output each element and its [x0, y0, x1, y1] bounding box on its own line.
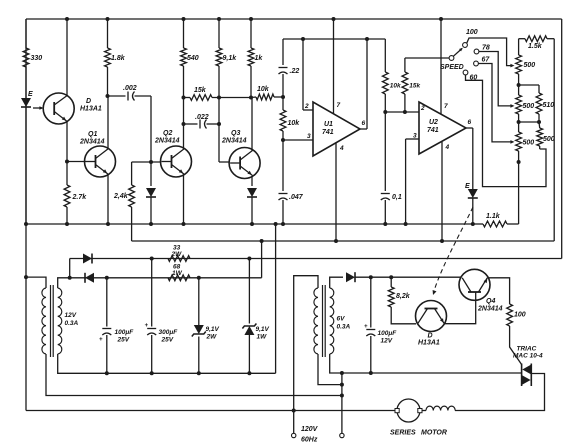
- resistor 10k vertical U1 input: [280, 97, 286, 140]
- svg-text:D: D: [86, 98, 91, 105]
- wire T2 secondary bottom common: [330, 354, 520, 373]
- label .047: [289, 194, 304, 201]
- wire Q2 emitter down: [183, 174, 185, 224]
- resistor 2.4k: [129, 162, 135, 241]
- svg-text:2N3414: 2N3414: [79, 139, 105, 146]
- junction 100uF2 bottom: [369, 371, 373, 375]
- U2 pin3 wire: [406, 139, 419, 224]
- svg-text:E: E: [465, 183, 470, 190]
- junction rail x219: [217, 17, 221, 21]
- svg-text:E: E: [28, 91, 33, 98]
- capacitor .22: [279, 39, 288, 97]
- svg-text:540: 540: [187, 55, 199, 62]
- svg-text:.22: .22: [290, 68, 300, 75]
- junction rail x107.5: [106, 17, 110, 21]
- label 9.1V 2W: [206, 326, 220, 341]
- capacitor 300uF 25V: [145, 259, 157, 374]
- label Q2: [154, 130, 180, 145]
- label 1.5k: [528, 43, 543, 50]
- wire triac MT2 to motor line: [455, 374, 545, 411]
- svg-text:2: 2: [420, 105, 425, 112]
- wire H13A1 lower emitter to Q4 base: [444, 300, 475, 323]
- diode T2 rectifier: [346, 272, 461, 282]
- junction rail x67: [65, 17, 69, 21]
- label 8.2k: [396, 293, 411, 300]
- svg-text:2.7k: 2.7k: [72, 194, 88, 201]
- svg-text:D: D: [428, 333, 433, 340]
- junction chain bottom: [517, 160, 521, 164]
- label 100: [466, 29, 478, 36]
- wire rail-to-supply common x275.6: [275, 224, 277, 373]
- resistor 540: [181, 19, 187, 98]
- U1 pin3 wire: [283, 139, 313, 141]
- svg-text:2N3414: 2N3414: [154, 138, 180, 145]
- junction -V x336 U1 pin4: [334, 239, 338, 243]
- label U2 pin6: [468, 119, 472, 126]
- label 100 ohm: [514, 312, 526, 319]
- wire top +V rail: [26, 18, 562, 20]
- svg-text:H13A1: H13A1: [80, 106, 102, 113]
- junction zener1 top: [197, 276, 201, 280]
- resistor 1.5k: [519, 36, 555, 42]
- motor circle: [395, 399, 422, 422]
- wire chain bottom down to 1.1k: [518, 151, 520, 224]
- label T2 6V 0.3A: [337, 316, 351, 331]
- junction 510/500 y122: [537, 120, 541, 124]
- svg-text:67: 67: [482, 57, 491, 64]
- svg-text:12V: 12V: [65, 312, 77, 319]
- junction supply common dots: [105, 371, 252, 375]
- label 15k U2: [409, 83, 420, 90]
- svg-text:+: +: [145, 323, 149, 329]
- label 540: [187, 55, 199, 62]
- wire Q2 base: [132, 161, 161, 163]
- svg-text:15k: 15k: [409, 83, 420, 90]
- resistor 510: [519, 85, 542, 122]
- node .022 right: [217, 122, 221, 126]
- label T1 12V 0.3A: [65, 312, 79, 327]
- svg-text:500: 500: [523, 140, 535, 147]
- label U1 pin2: [304, 103, 309, 110]
- resistor 1k: [248, 19, 254, 98]
- U2 pin4 wire down: [441, 142, 443, 241]
- junction rail224 x283: [281, 222, 285, 226]
- svg-text:2: 2: [304, 103, 309, 110]
- svg-text:1.8k: 1.8k: [111, 55, 126, 62]
- wire Q3 collector up: [251, 98, 253, 151]
- wire pot chain 2: [518, 114, 520, 132]
- U2 output pin6 wire: [466, 128, 473, 189]
- junction rail224 x405.6: [404, 222, 408, 226]
- svg-text:10k: 10k: [390, 83, 401, 90]
- svg-text:2W: 2W: [206, 334, 218, 341]
- capacitor 100uF 12V: [364, 277, 375, 373]
- junction zener2 top: [247, 257, 251, 261]
- label U2 741: [427, 119, 439, 134]
- label 510: [543, 102, 555, 109]
- junction x341.9 y384.6: [340, 383, 344, 387]
- svg-text:0.3A: 0.3A: [65, 320, 79, 327]
- junction 100uF top: [105, 276, 109, 280]
- svg-text:500: 500: [523, 103, 535, 110]
- wire Q4 emitter to 100ohm: [487, 278, 509, 304]
- resistor 330: [23, 19, 29, 97]
- label 500 bottom: [523, 140, 535, 147]
- svg-text:4: 4: [445, 144, 450, 151]
- label .022: [195, 114, 209, 121]
- svg-text:2N3414: 2N3414: [221, 138, 247, 145]
- svg-text:1.1k: 1.1k: [486, 213, 501, 220]
- label 9.1k: [223, 55, 238, 62]
- resistor 2.7k: [64, 162, 70, 225]
- node 1.8k bottom: [106, 94, 110, 98]
- U1 output wire pin6: [360, 39, 367, 129]
- junction 15k line x219: [217, 96, 221, 100]
- svg-text:U2: U2: [429, 119, 438, 126]
- capacitor 0.1: [381, 112, 390, 224]
- node U2 pin2 10k: [383, 110, 387, 114]
- junction rail x251: [249, 17, 253, 21]
- contact 100: [463, 43, 468, 48]
- U1 pin7 supply wire: [333, 19, 335, 114]
- svg-text:4: 4: [339, 145, 344, 152]
- label 500 top: [524, 62, 536, 69]
- wire H13A1 emitter to base node: [66, 121, 68, 161]
- svg-text:0,1: 0,1: [392, 194, 402, 201]
- label 330: [31, 55, 43, 62]
- label TRIAC MAC 10-4: [513, 346, 543, 360]
- transistor Q3 2N3414: [229, 148, 260, 179]
- svg-text:SPEED: SPEED: [440, 64, 464, 71]
- diode D2 rectifier: [85, 273, 94, 283]
- label 67: [482, 57, 491, 64]
- dashed light arrow E2 to lower detector: [433, 207, 473, 295]
- svg-text:Q4: Q4: [486, 298, 495, 305]
- junction rail224 x385: [383, 222, 387, 226]
- svg-text:510: 510: [543, 102, 555, 109]
- label U1 pin4: [339, 145, 344, 152]
- wire T2 primary top to AC1: [294, 276, 318, 434]
- op-amp U1 741: [313, 102, 360, 156]
- junction feedback x367: [365, 37, 369, 41]
- junction rail x183: [182, 17, 186, 21]
- wire pot chain: [518, 74, 520, 95]
- wire -V line y241: [132, 240, 555, 242]
- transistor Q1 2N3414: [85, 146, 116, 177]
- junction rail x333.5: [332, 17, 336, 21]
- svg-text:60Hz: 60Hz: [301, 437, 318, 444]
- LED E2 (optocoupler emitter to triac driver): [468, 189, 478, 224]
- wire left border vertical (top-left corner down): [25, 19, 27, 224]
- wire raw line y277.8: [70, 277, 262, 279]
- label SPEED: [440, 64, 464, 71]
- junction -V x261.6: [260, 239, 264, 243]
- junction rail224 x183: [182, 222, 186, 226]
- wire contact 100 to pot1 wiper: [467, 38, 515, 67]
- wire Q1 emitter down: [107, 174, 109, 224]
- contact 60: [463, 70, 468, 75]
- resistor 100: [507, 304, 522, 365]
- phototransistor D H13A1 (lower): [416, 301, 447, 332]
- diode below Q2: [146, 162, 156, 224]
- label 2.7k: [72, 194, 88, 201]
- switch arm: [453, 48, 463, 57]
- resistor 8.2k: [388, 277, 416, 324]
- terminal AC2: [340, 433, 344, 437]
- svg-text:.047: .047: [289, 194, 304, 201]
- wire +V line y258.5 to top rail right border: [70, 19, 562, 259]
- diode below Q3: [247, 176, 257, 224]
- resistor 500 parallel: [537, 122, 543, 149]
- label 100uF 25V: [115, 329, 135, 344]
- resistor 1.1k: [473, 221, 519, 227]
- svg-text:330: 330: [31, 55, 43, 62]
- label 15k: [194, 87, 207, 94]
- wire common rail y224: [26, 223, 473, 225]
- capacitor .022: [184, 120, 220, 129]
- svg-text:100: 100: [514, 312, 526, 319]
- svg-text:+: +: [364, 324, 368, 330]
- label 2.4k: [113, 193, 129, 200]
- svg-text:Q2: Q2: [163, 130, 172, 137]
- label U1 pin7: [337, 102, 341, 109]
- label .002: [123, 85, 137, 92]
- label U2 pin3: [413, 133, 417, 140]
- svg-text:25V: 25V: [117, 337, 130, 344]
- label 0.1: [392, 194, 402, 201]
- junction rail224 x67: [65, 222, 69, 226]
- svg-text:1W: 1W: [257, 334, 268, 341]
- label Q3: [221, 130, 247, 145]
- junction 300uF top: [150, 257, 154, 261]
- wire triac MT1 to common line: [520, 372, 522, 374]
- contact 78: [474, 49, 479, 54]
- label .22: [290, 68, 300, 75]
- svg-text:10k: 10k: [257, 86, 270, 93]
- label 10k vertical: [288, 120, 301, 127]
- inductor series field coil: [423, 406, 456, 410]
- svg-text:9,1k: 9,1k: [223, 55, 238, 62]
- wire switch common to 15k: [405, 57, 449, 60]
- wire contact 67 to pot3 wiper: [478, 64, 514, 144]
- svg-text:1.5k: 1.5k: [528, 43, 543, 50]
- wire Q2 collector up: [183, 98, 185, 150]
- svg-text:MAC 10-4: MAC 10-4: [513, 353, 543, 360]
- transistor Q4 2N3414: [459, 269, 490, 300]
- junction rail224 x252: [250, 222, 254, 226]
- label 10k U2: [390, 83, 401, 90]
- label U2 pin2: [420, 105, 425, 112]
- svg-text:120V: 120V: [301, 426, 319, 433]
- svg-text:300μF: 300μF: [159, 329, 179, 336]
- svg-text:0.3A: 0.3A: [337, 324, 351, 331]
- potentiometer 500 mid: [516, 95, 522, 114]
- U1 pin4 wire down: [335, 143, 337, 241]
- svg-text:100μF: 100μF: [115, 329, 135, 336]
- label 500 mid: [523, 103, 535, 110]
- triac MAC 10-4: [522, 364, 532, 387]
- resistor 10k horizontal: [251, 94, 283, 100]
- wire Q1 collector up: [107, 96, 110, 149]
- junction rail224 x275.6: [274, 222, 278, 226]
- label 100uF 12V: [378, 330, 398, 345]
- label 78: [482, 45, 490, 52]
- node Q2 collector / 15k left: [182, 96, 186, 100]
- svg-text:U1: U1: [324, 121, 333, 128]
- resistor 9.1k: [216, 19, 222, 162]
- label Q1: [79, 131, 105, 146]
- label U1 pin3: [307, 133, 311, 140]
- label SERIES MOTOR: [390, 430, 447, 437]
- label 10k horizontal: [257, 86, 270, 93]
- junction chain y122: [517, 120, 521, 124]
- wire T1 primary bottom to AC: [46, 354, 342, 396]
- wire T2 secondary top +6V line: [330, 277, 343, 288]
- wire U1 pin2 vertical: [302, 39, 304, 110]
- node 1k bottom: [249, 96, 253, 100]
- terminal AC1: [292, 433, 296, 437]
- svg-text:1W: 1W: [172, 270, 183, 277]
- svg-text:.002: .002: [123, 85, 137, 92]
- wire U1 feedback top line: [283, 38, 385, 40]
- wire Q3 base: [219, 161, 229, 163]
- svg-text:SERIES: SERIES: [390, 430, 416, 437]
- op-amp U2 741: [419, 102, 466, 154]
- transistor Q2 2N3414: [161, 146, 192, 177]
- junction rail224 x26: [24, 222, 28, 226]
- wire left border lower: [25, 224, 27, 411]
- zener 9.1V 2W: [192, 278, 206, 374]
- svg-text:1k: 1k: [255, 55, 264, 62]
- U2 pin7 supply wire: [440, 19, 442, 114]
- wire AC2 vertical: [341, 373, 343, 433]
- svg-text:25V: 25V: [161, 337, 174, 344]
- label D H13A1 lower: [418, 333, 440, 347]
- svg-text:7: 7: [337, 102, 341, 109]
- capacitor .047: [279, 140, 288, 224]
- svg-text:6: 6: [362, 120, 366, 127]
- label 68 1W: [172, 264, 183, 278]
- junction feedback x303: [301, 37, 305, 41]
- label 500 parallel: [543, 136, 555, 143]
- wire 1.5k left down to pot chain: [518, 39, 520, 55]
- label U2 pin4: [445, 144, 450, 151]
- junction chain x518.6 y85: [517, 83, 521, 87]
- LED E1 (optocoupler emitter): [21, 97, 31, 224]
- label E1: [28, 91, 33, 98]
- svg-text:H13A1: H13A1: [418, 340, 440, 347]
- node U2 pin2 15k: [403, 110, 407, 114]
- junction supply line x69.7: [68, 276, 72, 280]
- transformer T1 12V 0.3A: [42, 285, 62, 357]
- svg-text:15k: 15k: [194, 87, 207, 94]
- svg-text:Q3: Q3: [231, 130, 240, 137]
- capacitor .002: [108, 92, 152, 101]
- junction rail224 x151: [149, 222, 153, 226]
- svg-text:2N3414: 2N3414: [477, 306, 503, 313]
- wire rectifier link: [69, 259, 71, 278]
- label 60: [470, 75, 478, 82]
- potentiometer 500 top: [516, 55, 522, 74]
- wire T1 secondary top: [58, 278, 70, 288]
- resistor 15k U2 feedback: [402, 59, 408, 113]
- transformer T2 6V 0.3A: [314, 285, 334, 357]
- wire interconnect 241-278: [261, 241, 263, 278]
- label U1 741: [322, 121, 334, 136]
- contact 67: [474, 61, 479, 66]
- node U1 pin3 wire: [281, 138, 285, 142]
- svg-text:2W: 2W: [171, 251, 183, 258]
- label 9.1V 1W: [256, 326, 270, 341]
- node Q1 base: [65, 160, 69, 164]
- label D H13A1 upper: [80, 98, 102, 113]
- svg-text:7: 7: [444, 103, 448, 110]
- svg-text:3: 3: [413, 133, 417, 140]
- label 1k: [255, 55, 264, 62]
- svg-text:78: 78: [482, 45, 490, 52]
- junction 100uF2 top: [369, 275, 373, 279]
- diode D1 rectifier: [83, 254, 92, 264]
- junction x341.9 y373: [340, 371, 344, 375]
- svg-text:10k: 10k: [288, 120, 301, 127]
- junction rail224 x472.8: [471, 222, 475, 226]
- wire motor line y410.5: [26, 410, 397, 412]
- svg-text:9,1V: 9,1V: [256, 326, 270, 333]
- resistor 10k U2 input: [382, 39, 388, 112]
- label Q4 2N3414: [477, 298, 503, 313]
- svg-text:12V: 12V: [381, 338, 393, 345]
- label 33 2W: [171, 245, 183, 259]
- svg-text:6V: 6V: [337, 316, 346, 323]
- svg-text:.022: .022: [195, 114, 209, 121]
- svg-text:6: 6: [468, 119, 472, 126]
- svg-text:Q1: Q1: [88, 131, 97, 138]
- junction -V x442 U2 pin4: [440, 239, 444, 243]
- wire .002 to Q2 base node: [150, 96, 152, 162]
- junction 8.2k top: [389, 275, 393, 279]
- svg-text:741: 741: [427, 127, 439, 134]
- label 1.1k: [486, 213, 501, 220]
- junction motor line x293.7: [292, 409, 296, 413]
- wire U2 pin2: [385, 111, 419, 113]
- resistor 33 2W: [168, 256, 190, 262]
- wire contact 78 to pot2 wiper: [479, 52, 515, 108]
- node .22 / 10k: [281, 95, 285, 99]
- svg-text:500: 500: [524, 62, 536, 69]
- wire T2 primary bottom: [318, 354, 342, 385]
- svg-text:100: 100: [466, 29, 478, 36]
- zener 9.1V 1W: [242, 259, 256, 374]
- wire H13A1 collector to rail: [66, 19, 68, 96]
- node Q2 base: [149, 160, 153, 164]
- svg-text:500: 500: [543, 136, 555, 143]
- light arrow E1 to detector: [33, 106, 44, 110]
- svg-text:741: 741: [322, 129, 334, 136]
- svg-text:MOTOR: MOTOR: [421, 430, 447, 437]
- U1 pin2 wire: [303, 109, 313, 111]
- svg-text:9,1V: 9,1V: [206, 326, 220, 333]
- label 300uF 25V: [159, 329, 179, 344]
- wire Q1 base: [67, 161, 86, 163]
- label U1 pin6: [362, 120, 366, 127]
- wire T1 secondary bottom to supply common: [58, 354, 276, 373]
- svg-text:2,4k: 2,4k: [113, 193, 129, 200]
- node .022 left: [182, 122, 186, 126]
- junction rail x441: [439, 17, 443, 21]
- junction left border primary: [24, 275, 28, 279]
- label 1.8k: [111, 55, 126, 62]
- phototransistor D H13A1 (upper): [43, 93, 74, 124]
